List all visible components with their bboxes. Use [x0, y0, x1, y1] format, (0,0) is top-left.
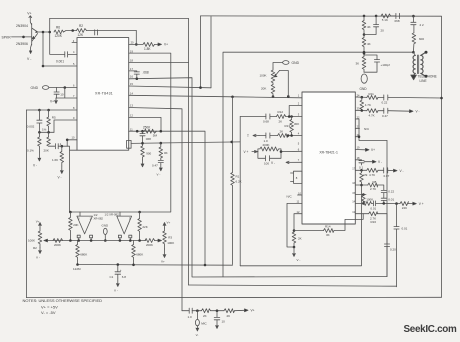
op-amp U3A 1/2 XR-082 [77, 212, 104, 241]
wire nested y=265.8 [240, 185, 361, 266]
wire pin14 to vertical [129, 108, 182, 311]
svg-text:V -: V - [416, 109, 420, 113]
svg-text:2N3904: 2N3904 [16, 24, 28, 28]
wire U2 pin15 row [355, 193, 366, 196]
node N/C pin10 [287, 195, 303, 199]
svg-text:0.1%: 0.1% [27, 148, 34, 152]
svg-text:R5: R5 [52, 116, 56, 120]
svg-text:0.002: 0.002 [27, 125, 35, 129]
svg-text:120K: 120K [55, 34, 63, 38]
svg-text:R16: R16 [371, 220, 377, 224]
capacitor 20 top-right [364, 16, 384, 35]
wire left border vertical [25, 110, 27, 298]
svg-text:.068: .068 [143, 70, 149, 74]
svg-text:22K: 22K [142, 225, 147, 229]
label TELEPHONE LINE [418, 75, 437, 83]
resistor R13 30K [285, 117, 300, 136]
svg-text:R14: R14 [325, 224, 331, 228]
resistor 900 [141, 146, 152, 160]
capacitor 0.47 [152, 160, 163, 177]
capacitor .068 top-right series [391, 13, 414, 23]
svg-text:6.8: 6.8 [122, 275, 127, 279]
resistor 22K pin14 [400, 202, 408, 211]
svg-text:0.22: 0.22 [388, 190, 394, 194]
svg-text:V -: V - [114, 289, 118, 293]
power V+ arrow at pin5 [50, 98, 57, 104]
svg-text:0.01: 0.01 [402, 227, 408, 231]
svg-text:MIC: MIC [201, 321, 207, 325]
svg-text:680K: 680K [136, 252, 143, 256]
power arrow below 900 [141, 160, 144, 167]
svg-text:3K: 3K [356, 62, 360, 66]
capacitor 0.22 U2 pin24 [382, 95, 388, 105]
wire pin8 row [61, 139, 78, 148]
resistor 680K right [132, 241, 144, 265]
svg-text:V- = -5V: V- = -5V [41, 310, 56, 315]
wire U2 pin16 row [355, 185, 384, 190]
wire U2 pin24 row [355, 96, 443, 99]
resistor 5.1K [381, 14, 391, 22]
power V+ arrow U2 pin6 [244, 150, 258, 154]
wire pin7 row [54, 120, 77, 132]
svg-text:250K: 250K [143, 125, 151, 129]
svg-text:12K: 12K [78, 33, 85, 37]
wire U2 pin23 row [355, 109, 409, 112]
wire W3K with resistor R14 3K [294, 214, 363, 237]
wire pin12 row 250K cluster [129, 130, 205, 265]
resistor vertical pins15-14 [362, 195, 366, 204]
wire pin13 short drop [129, 117, 161, 131]
wire U2 pin12 [293, 214, 302, 232]
resistor 2K U2 pin12 [292, 232, 301, 248]
svg-text:XR-T8431: XR-T8431 [95, 92, 113, 96]
resistor R12 2K [276, 110, 285, 124]
svg-text:SPKR: SPKR [2, 35, 12, 39]
svg-text:V +: V + [419, 202, 424, 206]
resistor 600 [412, 33, 424, 54]
svg-text:GND: GND [292, 61, 300, 65]
pot 100K with 20K at U2 pin1 [260, 68, 289, 97]
svg-text:+100pf: +100pf [381, 63, 390, 67]
node N/C pin21 [355, 127, 370, 131]
IC U2 XR-T8421-1 [302, 92, 355, 224]
svg-text:R2: R2 [33, 246, 37, 250]
svg-text:10: 10 [222, 319, 226, 323]
resistor 16K [52, 146, 64, 166]
wire U2 pin3 row [240, 115, 302, 118]
svg-text:20K: 20K [44, 148, 49, 152]
pot R2 100K [28, 220, 48, 260]
wire R2 across IC top to pin20 drop [87, 31, 138, 46]
wire line B top right rail [201, 15, 442, 298]
svg-text:V+: V+ [371, 148, 375, 152]
earpiece connector oval [361, 74, 367, 83]
resistor 10K [159, 143, 168, 160]
wire outer box bottom [26, 296, 441, 298]
resistor 4.7K vertical pins17-16 [360, 170, 377, 186]
svg-text:GND: GND [360, 87, 368, 91]
node T input arrow [247, 134, 259, 138]
svg-text:V -: V - [271, 161, 275, 165]
microphone MIC connector [195, 311, 207, 337]
svg-text:680K: 680K [80, 252, 87, 256]
svg-text:R3: R3 [168, 236, 172, 240]
svg-text:1/2 XR-082: 1/2 XR-082 [105, 213, 120, 217]
svg-text:0.47: 0.47 [152, 163, 158, 167]
pin 11 box [127, 140, 132, 148]
wire pin19 to vertical [129, 53, 171, 212]
wire op-amp bottom rail y=240.5 [44, 239, 146, 242]
node SPKR input [2, 30, 32, 40]
wire pin16 row to vertical [129, 77, 387, 277]
svg-text:6.2K: 6.2K [236, 180, 242, 184]
transformer T1 [413, 51, 427, 78]
resistor R11 [367, 92, 378, 100]
resistor 100K pin14 [363, 198, 374, 206]
svg-text:0.001: 0.001 [56, 60, 64, 64]
svg-text:20K: 20K [261, 86, 266, 90]
power V- arrow pin17 [394, 169, 404, 173]
capacitor .068 at pin17 [129, 70, 149, 78]
resistor R2 12K [77, 24, 87, 37]
notes text [23, 298, 103, 315]
capacitor 1.0 series in W2 [188, 308, 193, 319]
ground GND connector left [31, 86, 78, 91]
capacitor 0.001 on pin2 wire [50, 52, 77, 64]
wire U2 pin13 row [355, 213, 387, 215]
ground arrow transformer [411, 73, 417, 79]
power V+ arrow mic rail [245, 309, 255, 313]
svg-text:V-: V- [196, 333, 199, 337]
svg-text:1.6K: 1.6K [52, 158, 58, 162]
op-amp U3B 1/2 XR-082 [105, 212, 132, 241]
svg-text:22K: 22K [402, 206, 407, 210]
svg-text:V -: V - [400, 169, 404, 173]
resistor 3K [356, 52, 366, 72]
wire pin18 joins line A vertical [129, 62, 189, 64]
svg-text:0.47: 0.47 [382, 114, 388, 118]
IC U1 XR-T8431 [77, 38, 129, 151]
wire pin6 row [26, 109, 77, 112]
svg-text:GND: GND [102, 223, 110, 227]
svg-text:0.1: 0.1 [359, 166, 364, 170]
wire U2 pin22 to x386 vertical [355, 119, 387, 141]
transistor Q1 2N3904 [16, 12, 38, 33]
svg-text:R2: R2 [79, 24, 83, 28]
svg-text:1.0: 1.0 [188, 315, 193, 319]
svg-text:0.01: 0.01 [370, 206, 376, 210]
pin 1 stub [94, 30, 96, 35]
wire nested y=285 [189, 285, 397, 286]
svg-text:V+ = +5V: V+ = +5V [41, 305, 58, 310]
resistor R1 6.2K [231, 97, 242, 265]
resistor R6 120K [54, 26, 63, 39]
svg-text:XR-082: XR-082 [94, 217, 104, 221]
wire nested y=288.6 [239, 117, 241, 266]
resistor 2.7K pin13 [369, 212, 378, 225]
svg-text:068: 068 [395, 19, 400, 23]
svg-text:0.20: 0.20 [390, 248, 396, 252]
resistor 4.7K pin23 [367, 109, 378, 118]
svg-text:2K: 2K [279, 120, 283, 124]
capacitor .068 pin12 [140, 131, 158, 146]
resistor 680K left [76, 241, 88, 265]
resistor 4K upper top-right [362, 16, 370, 35]
svg-text:5 1K: 5 1K [382, 18, 388, 22]
ground GND connector top middle [273, 61, 300, 68]
resistor 2.7K pin16 [368, 183, 378, 187]
svg-text:2N3906: 2N3906 [16, 42, 28, 46]
svg-text:2K: 2K [203, 314, 207, 318]
resistor 250K [143, 125, 157, 133]
svg-text:2.7K: 2.7K [370, 187, 376, 191]
wire junction row y=132.3 [38, 131, 54, 134]
wire pin11 row [131, 141, 240, 145]
svg-text:4K: 4K [367, 25, 371, 29]
svg-text:V+: V+ [164, 43, 168, 47]
wire cluster to op-amp rail vertical [67, 146, 77, 212]
wire emitter junction to R6 and down to pin3 [38, 31, 77, 68]
resistor 22K opamp B [138, 212, 148, 241]
wire U2 pin2 [289, 106, 302, 117]
svg-text:0.01: 0.01 [388, 197, 394, 201]
svg-text:+: + [120, 268, 122, 272]
U2 pin numbers [297, 93, 361, 214]
svg-text:2K: 2K [298, 236, 302, 240]
transistor Q2 2N3906 [16, 34, 38, 62]
capacitor 2.2 [411, 16, 424, 33]
ground GND connector opamps [102, 223, 110, 241]
svg-text:V -: V - [58, 176, 62, 180]
resistor 20K [44, 132, 51, 152]
svg-text:V -: V - [297, 258, 301, 262]
resistor 200K U2 parallel [258, 143, 281, 151]
svg-text:100K: 100K [28, 239, 35, 243]
svg-text:100: 100 [264, 162, 269, 166]
svg-text:2K: 2K [280, 129, 284, 133]
svg-text:C1: C1 [110, 275, 114, 279]
svg-text:4K: 4K [367, 42, 371, 46]
svg-text:068: 068 [146, 137, 151, 141]
power V+ arrow pin14 [413, 202, 424, 206]
capacitor 100 U2 parallel [258, 150, 302, 165]
svg-text:LINE: LINE [420, 79, 427, 83]
capacitor 1.0 U2 pin4 [259, 133, 278, 143]
svg-text:20: 20 [381, 29, 385, 33]
svg-text:600: 600 [419, 37, 424, 41]
wire U2 pin20 stub [355, 135, 360, 138]
wire U2 pin11 [287, 203, 302, 247]
svg-text:V -: V - [33, 163, 37, 167]
svg-text:T: T [247, 134, 249, 138]
svg-text:0K: 0K [164, 151, 168, 155]
svg-text:V +: V + [244, 150, 249, 154]
capacitor 0.68 [263, 114, 270, 124]
svg-text:V -: V - [157, 173, 161, 177]
power V- arrow U2 pin7 [271, 161, 302, 165]
svg-text:200K: 200K [263, 143, 270, 147]
svg-text:XR-T8421-1: XR-T8421-1 [319, 150, 338, 154]
svg-text:V+: V+ [251, 309, 255, 313]
resistor 20K below pot [261, 85, 275, 97]
svg-text:R9: R9 [364, 173, 368, 177]
resistor 4K lower top-right [362, 33, 370, 53]
svg-text:1.8K: 1.8K [144, 47, 151, 51]
svg-text:100K: 100K [167, 241, 174, 245]
wire op-amp top rail y=212 [69, 211, 170, 214]
wire bottom mic rail W2 [182, 309, 245, 312]
svg-text:V+: V+ [167, 221, 171, 225]
svg-text:4.7K: 4.7K [369, 113, 375, 117]
power V+ arrow pin20 [158, 43, 168, 47]
wire pin15 row long to U2 pin1 [129, 16, 302, 98]
pot R3 100K [155, 221, 175, 264]
power V+ arrow pin19 [355, 148, 375, 152]
capacitor 0.01 series pin14 [370, 201, 376, 211]
svg-text:100K: 100K [260, 74, 267, 78]
svg-text:4.7K: 4.7K [365, 103, 371, 107]
svg-text:V+: V+ [161, 260, 165, 264]
wire W1 bottom feedback rail [73, 263, 233, 271]
resistor 2K mic left [202, 309, 211, 319]
svg-text:20K: 20K [73, 223, 78, 227]
svg-text:V -: V - [36, 256, 40, 260]
resistor 4.7K vertical pins24-23 [360, 97, 371, 110]
wire line A top [50, 18, 189, 285]
svg-text:100K: 100K [366, 198, 373, 202]
svg-text:0.22: 0.22 [382, 101, 388, 105]
resistor 2K U2 pin4 [278, 129, 302, 137]
svg-text:R12: R12 [278, 110, 284, 114]
svg-text:122M: 122M [73, 267, 81, 271]
svg-text:4.7K: 4.7K [369, 173, 375, 177]
svg-text:5M: 5M [153, 134, 158, 138]
svg-text:NOTES: UNLESS OTHERWISE SPECIF: NOTES: UNLESS OTHERWISE SPECIFIED [23, 298, 103, 303]
svg-text:V -: V - [27, 57, 31, 61]
resistor 1.8K [136, 42, 158, 51]
resistor 4.7K pin17 [364, 168, 379, 177]
resistor 2K mic right [224, 309, 235, 319]
wire U2 pin14 row [355, 202, 413, 205]
svg-text:R13: R13 [285, 124, 291, 128]
power V- arrow pin23 [410, 109, 420, 113]
capacitor 0.47 pin23 [382, 108, 388, 118]
wire node A vertical x=49.7 [48, 18, 51, 54]
svg-text:2K: 2K [227, 314, 231, 318]
wire pin3 stub [72, 42, 77, 44]
pin 2 stub [97, 30, 99, 35]
svg-text:GND: GND [31, 86, 39, 90]
svg-text:900: 900 [146, 152, 151, 156]
svg-text:SeekIC.com: SeekIC.com [404, 324, 458, 335]
svg-text:2 2: 2 2 [420, 23, 425, 27]
power V- arrow below left resistor [33, 152, 41, 167]
svg-text:R11: R11 [369, 92, 375, 96]
capacitor 0.20 on x386 vertical [384, 214, 396, 277]
crystal Y1 pins 8 9 [291, 171, 303, 183]
svg-text:200K: 200K [54, 243, 61, 247]
svg-text:N/C: N/C [287, 195, 293, 199]
svg-text:V+: V+ [27, 12, 31, 16]
svg-text:1%: 1% [42, 128, 47, 132]
wire line C [223, 52, 413, 277]
capacitor 0.07 pin17 [384, 168, 390, 178]
capacitor +100pf [364, 55, 390, 72]
resistor 200K right [145, 239, 155, 247]
capacitor 0.002 [27, 110, 42, 132]
capacitor C1 6.8 [110, 263, 127, 292]
svg-text:N/C: N/C [364, 127, 370, 131]
svg-text:10: 10 [60, 93, 64, 97]
capacitor 1 [49, 142, 68, 149]
svg-text:0.68: 0.68 [263, 120, 269, 124]
power V- below 16K [58, 166, 64, 180]
svg-text:V+: V+ [36, 220, 40, 224]
svg-text:V -: V - [378, 160, 382, 164]
svg-text:30K: 30K [294, 122, 299, 126]
resistor 20K left pair [27, 132, 41, 152]
capacitor chain 0.22 0.01 pins16-14 [381, 190, 394, 204]
capacitor 1.0 shunt mic [214, 311, 225, 329]
resistor 20K opamp [69, 212, 79, 240]
power V- arrow below 2K [293, 247, 301, 262]
wire U2 pin17 row [355, 169, 393, 172]
wire pin20 row [129, 31, 137, 45]
svg-text:200K: 200K [146, 243, 153, 247]
resistor 200K left [53, 239, 63, 247]
wire R6 to R2 [63, 29, 76, 32]
svg-text:3K: 3K [326, 233, 330, 237]
svg-text:V+: V+ [50, 99, 54, 103]
svg-text:0.07: 0.07 [384, 174, 390, 178]
capacitor 0.1 pin18 [355, 160, 382, 170]
capacitor 0.01 on x397.8 vertical [394, 204, 408, 287]
U1 pin numbers right side [72, 39, 135, 140]
resistor R5 51K [42, 110, 56, 132]
capacitor 10 at pin5 [54, 88, 77, 99]
svg-text:R6: R6 [56, 26, 60, 30]
svg-text:R1: R1 [236, 174, 240, 178]
